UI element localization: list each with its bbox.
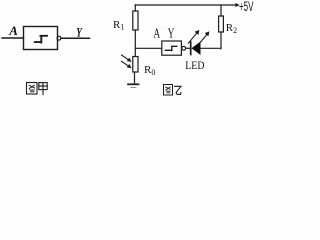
svg-text:Y: Y [168, 26, 175, 41]
resistor R2 [219, 16, 224, 32]
LED emission arrow 1 [188, 34, 196, 44]
resistor R1 [134, 5, 136, 11]
LED triangle [192, 42, 201, 56]
wire LED anode to R2 branch corner [201, 32, 222, 49]
photoresistor light arrow 2 [122, 61, 129, 66]
svg-text:LED: LED [185, 59, 204, 72]
schmitt trigger U2 box [162, 41, 182, 55]
photoresistor light arrow 1 [122, 55, 129, 60]
inversion bubble U1 output [57, 36, 61, 40]
+5V supply rail [135, 4, 236, 6]
svg-text:A: A [153, 26, 160, 41]
caption 图乙 : glyph 图 [164, 85, 173, 96]
schmitt hysteresis symbol U2 [165, 46, 176, 50]
caption 图乙 : glyph 乙 [175, 86, 182, 94]
inversion bubble U2 output [182, 46, 186, 50]
wire branch junction to A input of U2 [135, 47, 162, 49]
svg-text:Y: Y [76, 26, 82, 40]
LED cathode bar [190, 42, 192, 55]
svg-text:R0: R0 [144, 64, 155, 77]
caption 图甲 : glyph 图 [27, 83, 38, 95]
schmitt trigger U1 box [24, 27, 58, 50]
resistor R0 (photoresistor) [133, 57, 138, 73]
ground [128, 83, 139, 85]
wire R1 bottom to R0 top [134, 30, 136, 57]
wire A input (figure 1) [2, 37, 24, 39]
wire Y output (figure 1) [61, 37, 90, 39]
svg-text:R2: R2 [226, 22, 237, 35]
LED emission arrow 2 [200, 35, 207, 43]
svg-text:R1: R1 [113, 19, 124, 32]
supply rail arrowhead [236, 3, 240, 7]
wire R0 bottom to ground [134, 72, 136, 84]
wire bubble to LED cathode [186, 47, 191, 49]
svg-text:+5V: +5V [239, 0, 254, 15]
svg-text:A: A [8, 23, 18, 38]
caption 图甲 : glyph 甲 [39, 83, 47, 95]
schmitt hysteresis symbol U1 [35, 36, 47, 43]
